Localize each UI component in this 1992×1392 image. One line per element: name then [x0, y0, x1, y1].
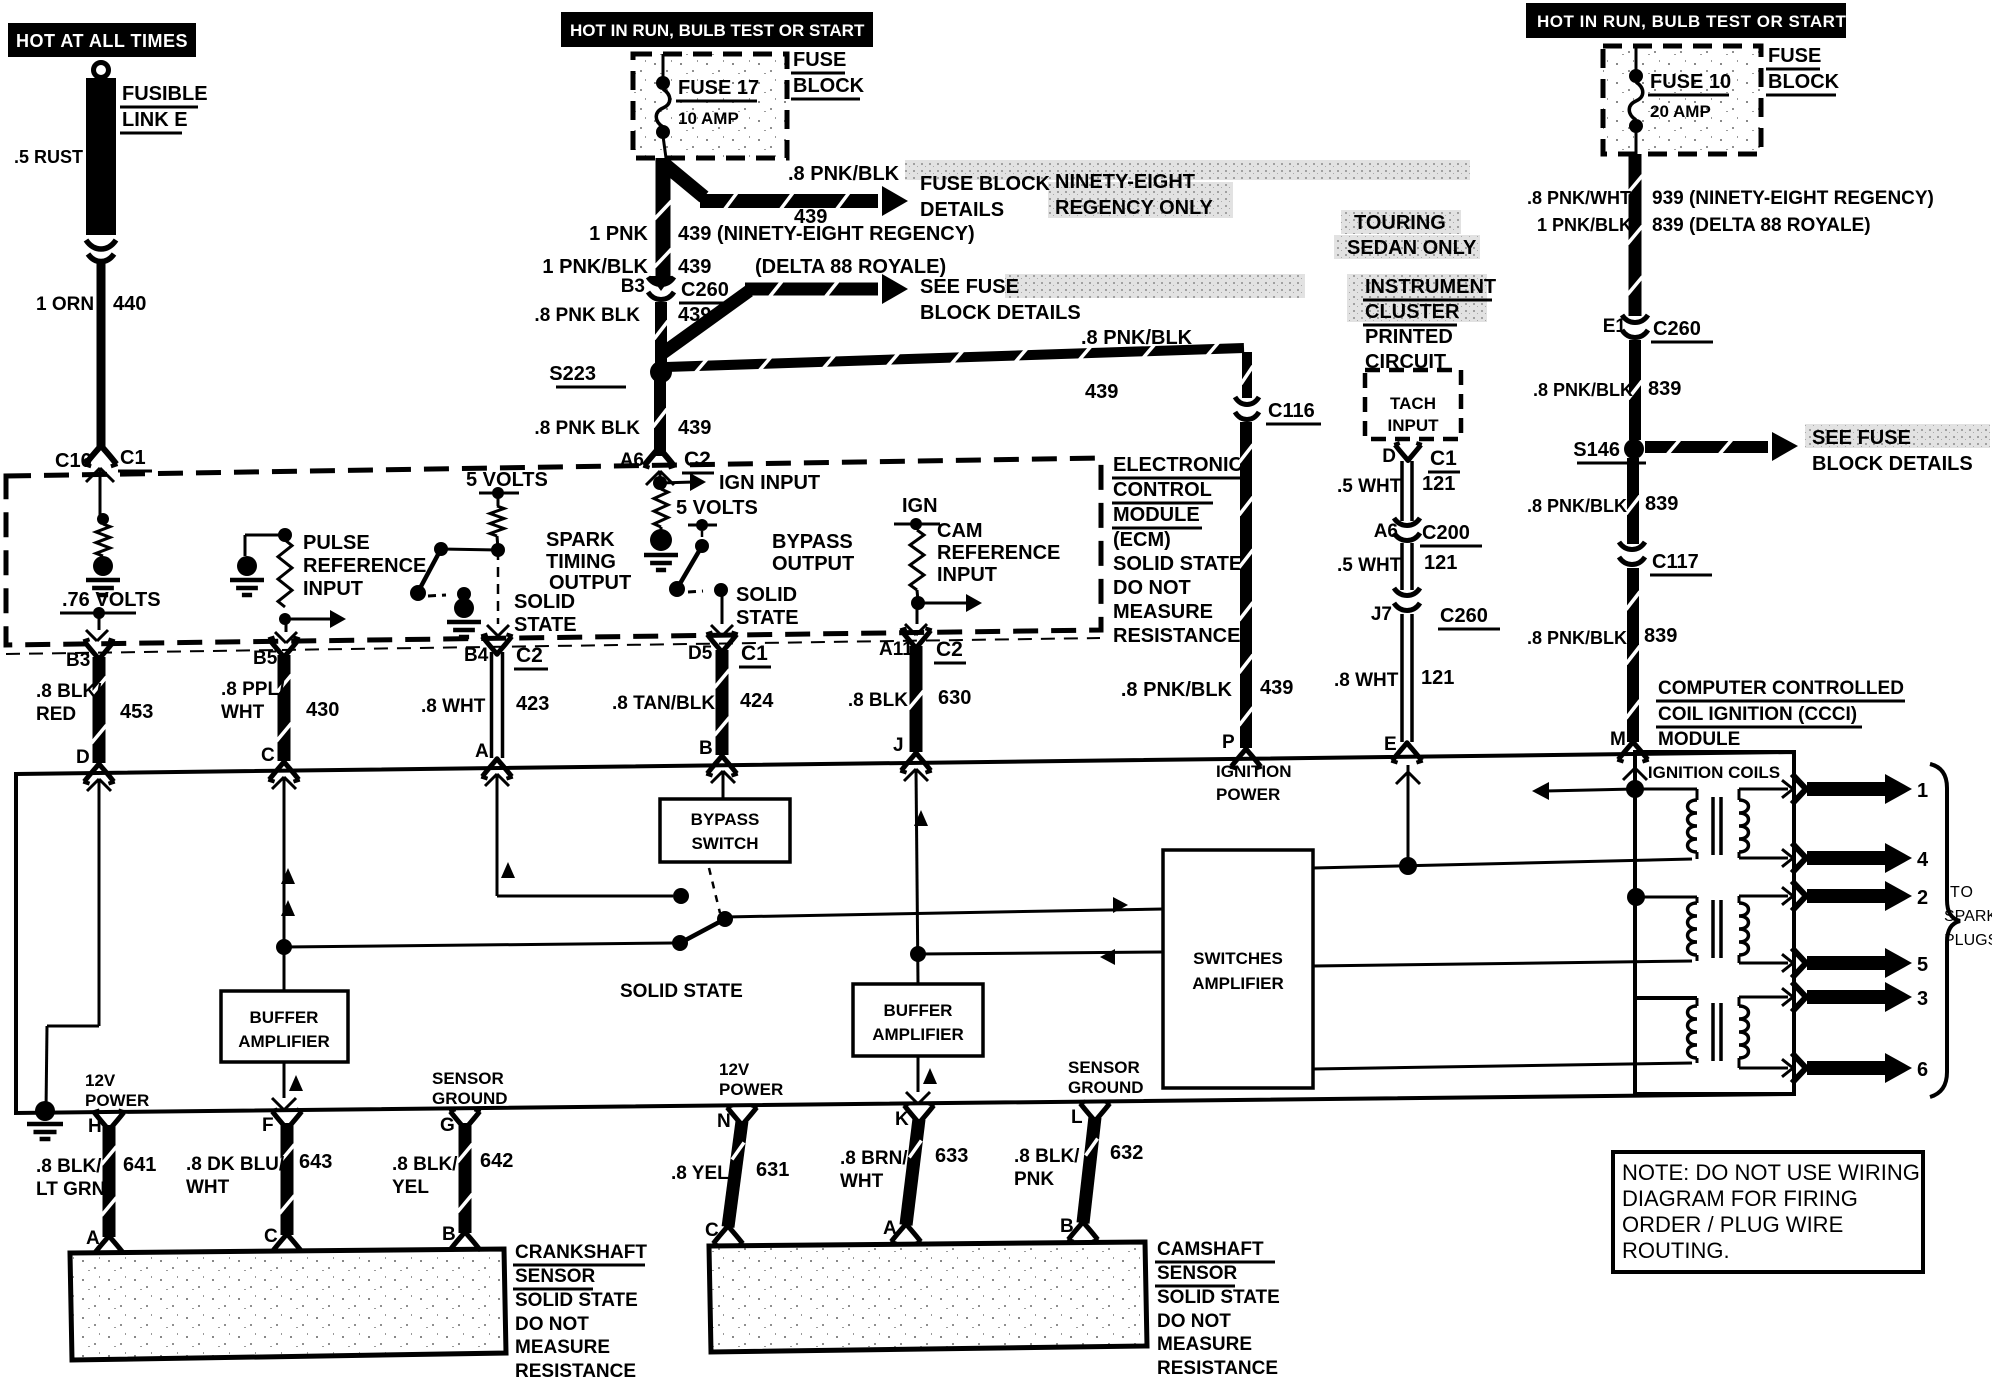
module pin A	[475, 741, 513, 779]
branch arrow to fuse block details (98 regency)	[663, 163, 908, 216]
svg-text:YEL: YEL	[392, 1177, 429, 1198]
svg-text:SENSOR: SENSOR	[1068, 1058, 1140, 1077]
svg-text:TACH: TACH	[1390, 394, 1436, 413]
svg-text:439: 439	[678, 256, 711, 278]
label FUSE 10 20 AMP	[1648, 71, 1731, 121]
switches amp output 3	[1313, 1063, 1692, 1069]
ECM pin A11 / C2	[879, 628, 966, 663]
svg-text:DO NOT: DO NOT	[1157, 1311, 1231, 1332]
svg-text:REGENCY ONLY: REGENCY ONLY	[1055, 197, 1213, 219]
wire C junction to bypass contact	[284, 943, 673, 947]
svg-text:.5 WHT: .5 WHT	[1337, 476, 1402, 497]
svg-text:.8 DK BLU/: .8 DK BLU/	[186, 1154, 285, 1175]
svg-text:.8 PNK/BLK: .8 PNK/BLK	[1121, 679, 1233, 701]
label SEE FUSE BLOCK DETAILS (middle)	[920, 276, 1081, 324]
svg-text:RED: RED	[36, 704, 76, 725]
svg-text:.8 TAN/BLK: .8 TAN/BLK	[612, 693, 715, 714]
svg-text:839: 839	[1645, 493, 1678, 515]
svg-text:423: 423	[516, 693, 549, 715]
svg-text:C: C	[261, 745, 275, 766]
svg-text:C1: C1	[1430, 447, 1457, 470]
arrow to ignition power	[1532, 782, 1635, 800]
svg-text:SOLID: SOLID	[736, 584, 797, 606]
ECM pin D5 / C1	[688, 632, 771, 667]
svg-text:.8 PNK/BLK: .8 PNK/BLK	[1527, 496, 1627, 516]
svg-text:631: 631	[756, 1159, 789, 1181]
gray halo touring	[1334, 210, 1480, 259]
wire 439 below fuse 17	[650, 158, 672, 291]
svg-text:.8 PNK/BLK: .8 PNK/BLK	[1081, 327, 1193, 349]
wire 121 (C200 to C260)	[1400, 543, 1404, 590]
label 1 PNK/BLK 439 (DELTA 88 ROYALE)	[542, 256, 946, 278]
svg-text:121: 121	[1421, 667, 1454, 689]
svg-text:BYPASS: BYPASS	[691, 810, 760, 829]
svg-text:SPARK: SPARK	[546, 529, 615, 551]
svg-text:.8 BLK/: .8 BLK/	[1014, 1146, 1080, 1167]
svg-text:1 PNK/BLK: 1 PNK/BLK	[542, 256, 648, 278]
svg-text:430: 430	[306, 699, 339, 721]
svg-text:ELECTRONIC: ELECTRONIC	[1113, 454, 1243, 476]
svg-text:630: 630	[938, 687, 971, 709]
connector J7 / C260	[1371, 588, 1500, 629]
label .8 PNK/BLK 839 (mid)	[1527, 493, 1678, 516]
label CRANKSHAFT SENSOR block	[513, 1242, 647, 1382]
label CAM REFERENCE INPUT	[937, 520, 1060, 586]
svg-text:1: 1	[1917, 780, 1928, 802]
gray halo see fuse right	[1805, 424, 1990, 448]
svg-text:COIL IGNITION (CCCI): COIL IGNITION (CCCI)	[1658, 704, 1857, 725]
gray halo instrument cluster	[1347, 274, 1487, 322]
brace TO SPARK PLUGS	[1930, 764, 1960, 1097]
svg-text:C260: C260	[681, 279, 729, 301]
svg-text:.8 BLK/: .8 BLK/	[36, 681, 102, 702]
wire 439 between S223 and A6	[654, 380, 666, 456]
svg-text:CONTROL: CONTROL	[1113, 479, 1212, 501]
label .8 BLK/PNK 632	[1014, 1142, 1143, 1190]
svg-text:FUSE: FUSE	[1768, 45, 1821, 67]
fuse 17 symbol	[656, 54, 670, 158]
svg-text:121: 121	[1422, 473, 1455, 495]
module pin B	[699, 738, 738, 776]
svg-text:SOLID STATE: SOLID STATE	[1157, 1287, 1280, 1308]
label .8 PNK/BLK 439 (top arrow)	[788, 163, 900, 228]
svg-text:.8 WHT: .8 WHT	[1334, 670, 1399, 691]
module pin J	[893, 735, 932, 773]
wire 839 to S146	[1629, 340, 1641, 440]
label 1 PNK/BLK 839	[1537, 215, 1871, 236]
wire 430	[278, 655, 291, 761]
svg-text:1 ORN: 1 ORN	[36, 294, 94, 315]
svg-text:FUSE: FUSE	[793, 49, 846, 71]
svg-text:GROUND: GROUND	[1068, 1078, 1144, 1097]
svg-text:.8 WHT: .8 WHT	[421, 696, 486, 717]
wire 630	[910, 646, 923, 752]
cam sensor pin A	[883, 1218, 922, 1244]
svg-text:HOT AT ALL TIMES: HOT AT ALL TIMES	[16, 31, 188, 51]
svg-text:M: M	[1610, 729, 1626, 750]
label FUSE 17 10 AMP	[676, 77, 759, 128]
svg-text:641: 641	[123, 1154, 156, 1176]
label .8 PNK/BLK 439 (long run)	[1081, 327, 1193, 403]
label FUSE BLOCK DETAILS	[920, 173, 1051, 221]
pulse ref ground	[237, 556, 257, 576]
ECM text block	[1112, 454, 1245, 647]
wire 632	[1077, 1116, 1102, 1223]
svg-text:E: E	[1384, 734, 1397, 755]
svg-text:.8 PNK/BLK: .8 PNK/BLK	[1533, 380, 1633, 400]
crank sensor pin C	[264, 1226, 303, 1254]
svg-text:.5 WHT: .5 WHT	[1337, 555, 1402, 576]
buffer amplifier 2 box	[853, 984, 983, 1056]
fuse 10 symbol	[1629, 46, 1643, 154]
wire J to buffer amplifier 2	[904, 769, 1163, 984]
label COMPUTER CONTROLLED COIL IGNITION (CCCI) MODULE	[1656, 678, 1905, 752]
label TO SPARK PLUGS	[1944, 884, 1992, 949]
svg-text:MODULE: MODULE	[1658, 729, 1740, 750]
svg-text:643: 643	[299, 1151, 332, 1173]
wire A6 into ECM	[646, 471, 674, 485]
svg-text:C16: C16	[55, 450, 92, 472]
svg-text:3: 3	[1917, 988, 1928, 1010]
svg-text:F: F	[262, 1115, 274, 1136]
wire 121 (D to C200)	[1400, 461, 1404, 521]
svg-text:ORDER / PLUG WIRE: ORDER / PLUG WIRE	[1622, 1212, 1843, 1237]
svg-text:B5: B5	[253, 648, 278, 669]
wire A to bypass contact	[485, 774, 689, 904]
module pin F	[262, 1109, 303, 1136]
label TACH INPUT	[1388, 394, 1440, 435]
connector A6 / C2	[620, 448, 714, 473]
spark timing output wire	[487, 550, 509, 636]
svg-text:LT GRN: LT GRN	[36, 1179, 105, 1200]
svg-text:C200: C200	[1422, 522, 1470, 544]
module pin M	[1610, 729, 1649, 762]
svg-text:CRANKSHAFT: CRANKSHAFT	[515, 1242, 647, 1263]
svg-text:WHT: WHT	[840, 1171, 884, 1192]
svg-text:.8 PPL/: .8 PPL/	[221, 679, 285, 700]
5 volts supply (bypass)	[676, 497, 758, 531]
label NINETY-EIGHT REGENCY ONLY	[1055, 171, 1213, 219]
svg-text:SOLID STATE: SOLID STATE	[620, 981, 743, 1002]
svg-text:CLUSTER: CLUSTER	[1365, 301, 1460, 323]
module pin L	[1071, 1101, 1111, 1128]
svg-text:MEASURE: MEASURE	[1113, 601, 1213, 623]
svg-text:B: B	[699, 738, 713, 759]
wire M into coils	[1623, 756, 1647, 998]
svg-text:WHT: WHT	[221, 702, 265, 723]
svg-text:J7: J7	[1371, 604, 1392, 625]
svg-text:PNK: PNK	[1014, 1169, 1054, 1190]
camshaft sensor box	[709, 1242, 1147, 1352]
label .8 WHT 121 (lower)	[1334, 667, 1454, 691]
svg-text:439 (NINETY-EIGHT REGENCY): 439 (NINETY-EIGHT REGENCY)	[678, 223, 975, 245]
svg-text:439: 439	[678, 417, 711, 439]
svg-text:SENSOR: SENSOR	[1157, 1263, 1238, 1284]
label INSTRUMENT CLUSTER PRINTED CIRCUIT	[1363, 276, 1496, 373]
svg-text:B3: B3	[621, 276, 645, 297]
fuse block 17 dashed box	[633, 54, 787, 158]
svg-text:439: 439	[1085, 381, 1118, 403]
power label: HOT IN RUN BULB TEST OR START (middle)	[561, 12, 873, 47]
svg-text:SEE FUSE: SEE FUSE	[1812, 427, 1911, 449]
svg-text:INSTRUMENT: INSTRUMENT	[1365, 276, 1496, 298]
svg-text:10 AMP: 10 AMP	[678, 109, 739, 128]
wire 642	[459, 1123, 472, 1233]
IGN input ground	[644, 527, 678, 570]
spark timing resistor	[490, 493, 504, 549]
wire 939 below fuse 10	[1629, 154, 1642, 316]
svg-text:.8 BLK: .8 BLK	[848, 690, 908, 711]
spark plug arrow 2	[1782, 881, 1928, 911]
switches amplifier box	[1163, 850, 1313, 1088]
svg-text:POWER: POWER	[719, 1080, 783, 1099]
label .8 BLK 630	[848, 687, 972, 711]
spark plug arrow 5	[1782, 948, 1928, 978]
ignition coils box	[1635, 752, 1794, 1094]
branch arrow SEE FUSE BLOCK DETAILS (delta 88)	[663, 274, 908, 353]
svg-text:POWER: POWER	[85, 1091, 149, 1110]
crank sensor pin B	[442, 1224, 481, 1252]
pulse ref resistor	[278, 540, 292, 607]
label 1 PNK 439 (NINETY-EIGHT REGENCY)	[589, 223, 975, 245]
svg-text:ROUTING.: ROUTING.	[1622, 1238, 1730, 1263]
wire 424	[716, 650, 729, 755]
svg-text:P: P	[1222, 732, 1235, 753]
module pin P	[1222, 732, 1262, 769]
svg-text:SEE FUSE: SEE FUSE	[920, 276, 1019, 298]
bypass output wire	[711, 590, 733, 636]
cluster pin D / C1	[1382, 443, 1460, 472]
svg-text:839 (DELTA 88 ROYALE): 839 (DELTA 88 ROYALE)	[1652, 215, 1871, 236]
ECM pin B4 / C2	[464, 634, 548, 669]
svg-text:BLOCK DETAILS: BLOCK DETAILS	[1812, 453, 1973, 475]
power label: HOT IN RUN BULB TEST OR START (right)	[1526, 3, 1846, 38]
svg-text:MEASURE: MEASURE	[1157, 1334, 1252, 1355]
label .8 BLK/YEL 642	[392, 1150, 513, 1198]
svg-text:.8 PNK/BLK: .8 PNK/BLK	[1527, 628, 1627, 648]
label .8 PNK/WHT 939	[1527, 188, 1934, 209]
svg-text:C2: C2	[936, 638, 963, 661]
wire 439 long run to C116	[666, 343, 1244, 372]
spark plug arrow 1	[1782, 774, 1928, 804]
svg-text:D: D	[1382, 446, 1396, 467]
buffer amplifier 1 box	[221, 991, 348, 1062]
svg-text:DETAILS: DETAILS	[920, 199, 1004, 221]
svg-text:HOT IN RUN, BULB TEST OR START: HOT IN RUN, BULB TEST OR START	[1537, 12, 1846, 31]
svg-text:REFERENCE: REFERENCE	[303, 555, 426, 577]
wire 121 (C260 to E)	[1400, 614, 1404, 742]
svg-text:HOT IN RUN, BULB TEST OR START: HOT IN RUN, BULB TEST OR START	[570, 21, 865, 40]
svg-text:POWER: POWER	[1216, 785, 1280, 804]
svg-text:839: 839	[1644, 625, 1677, 647]
svg-text:INPUT: INPUT	[937, 564, 997, 586]
svg-text:5: 5	[1917, 954, 1928, 976]
resistor at C16 input	[96, 513, 110, 556]
svg-text:642: 642	[480, 1150, 513, 1172]
svg-text:SEDAN ONLY: SEDAN ONLY	[1347, 237, 1477, 259]
svg-text:BUFFER: BUFFER	[884, 1001, 953, 1020]
svg-text:IGN: IGN	[902, 495, 938, 517]
IGN input node	[653, 472, 820, 494]
svg-text:B4: B4	[464, 645, 489, 666]
wire 633	[900, 1118, 926, 1226]
label SOLID STATE (spark)	[514, 591, 577, 636]
svg-text:SOLID: SOLID	[514, 591, 575, 613]
svg-text:RESISTANCE: RESISTANCE	[1113, 625, 1240, 647]
svg-text:1 PNK/BLK: 1 PNK/BLK	[1537, 215, 1632, 235]
svg-text:BLOCK: BLOCK	[793, 75, 865, 97]
ECM dashed box	[6, 458, 1101, 654]
wire buffer amplifier 2 to K	[906, 1056, 937, 1104]
svg-text:.8 YEL: .8 YEL	[671, 1163, 729, 1184]
svg-text:.8 PNK BLK: .8 PNK BLK	[534, 305, 640, 326]
svg-text:C1: C1	[120, 447, 146, 469]
svg-text:N: N	[717, 1111, 731, 1132]
module pin K	[895, 1103, 935, 1130]
svg-text:5 VOLTS: 5 VOLTS	[466, 469, 548, 491]
cam sensor pin C	[705, 1220, 744, 1246]
gray halo see fuse	[1005, 274, 1305, 298]
svg-text:AMPLIFIER: AMPLIFIER	[1192, 974, 1284, 993]
wire C1 into ECM	[86, 468, 114, 519]
IGN input resistor	[654, 489, 668, 527]
svg-text:C260: C260	[1440, 605, 1488, 627]
splice S146	[1573, 439, 1646, 463]
bypass relay lever	[672, 868, 1163, 951]
svg-text:MODULE: MODULE	[1113, 504, 1200, 526]
connector A6 / C200	[1374, 518, 1482, 546]
wire 439 down to C116	[1242, 352, 1252, 398]
spark plug arrow 4	[1782, 843, 1929, 873]
wire E to coil line	[1396, 765, 1420, 875]
svg-text:INPUT: INPUT	[1388, 416, 1440, 435]
svg-text:SOLID STATE: SOLID STATE	[515, 1290, 638, 1311]
svg-text:S146: S146	[1573, 439, 1620, 461]
bypass switch lever	[669, 531, 728, 597]
svg-text:424: 424	[740, 690, 774, 712]
label .8 WHT 423	[421, 693, 549, 717]
crankshaft sensor box	[70, 1249, 506, 1360]
svg-text:633: 633	[935, 1145, 968, 1167]
label .8 BLK/LT GRN 641	[36, 1154, 156, 1200]
svg-text:GROUND: GROUND	[432, 1089, 508, 1108]
svg-text:2: 2	[1917, 887, 1928, 909]
label IGNITION POWER	[1216, 762, 1292, 804]
svg-text:SOLID STATE: SOLID STATE	[1113, 553, 1242, 575]
label .5 WHT 121 (upper)	[1337, 473, 1455, 497]
ground at C16 input	[93, 556, 113, 576]
ignition coil 1	[1635, 789, 1788, 859]
wire 439 to pin P	[1240, 422, 1252, 748]
cam sensor pin B	[1060, 1216, 1099, 1242]
svg-text:BLOCK DETAILS: BLOCK DETAILS	[920, 302, 1081, 324]
connector C117	[1619, 542, 1712, 575]
switches amp output 2	[1313, 961, 1692, 966]
svg-text:FUSE BLOCK: FUSE BLOCK	[920, 173, 1051, 195]
label SPARK TIMING OUTPUT	[546, 529, 631, 594]
svg-text:MEASURE: MEASURE	[515, 1337, 610, 1358]
svg-text:OUTPUT: OUTPUT	[772, 553, 854, 575]
branch arrow SEE FUSE BLOCK DETAILS (right)	[1645, 432, 1798, 461]
pulse ref junction	[245, 528, 292, 556]
svg-text:SENSOR: SENSOR	[515, 1266, 596, 1287]
wire 423 (white)	[490, 652, 494, 758]
svg-text:.8 BLK/: .8 BLK/	[36, 1156, 102, 1177]
svg-text:NOTE: DO NOT USE WIRING: NOTE: DO NOT USE WIRING	[1622, 1160, 1920, 1185]
label SENSOR GROUND (right)	[1068, 1058, 1144, 1097]
svg-text:COMPUTER CONTROLLED: COMPUTER CONTROLLED	[1658, 678, 1904, 699]
svg-text:SPARK: SPARK	[1944, 908, 1992, 925]
svg-text:RESISTANCE: RESISTANCE	[1157, 1358, 1278, 1379]
svg-text:.8 BLK/: .8 BLK/	[392, 1154, 458, 1175]
svg-text:PULSE: PULSE	[303, 532, 370, 554]
wire 643	[281, 1123, 294, 1235]
label .8 YEL 631	[671, 1159, 789, 1184]
svg-text:CAMSHAFT: CAMSHAFT	[1157, 1239, 1264, 1260]
svg-text:(DELTA 88 ROYALE): (DELTA 88 ROYALE)	[755, 256, 946, 278]
label .8 TAN/BLK 424	[612, 690, 774, 714]
ECM pin B3	[66, 639, 115, 671]
wire bypass switch to B	[711, 771, 735, 799]
svg-text:FUSE 10: FUSE 10	[1650, 71, 1731, 93]
svg-text:1 PNK: 1 PNK	[589, 223, 648, 245]
svg-text:20 AMP: 20 AMP	[1650, 102, 1711, 121]
svg-text:NINETY-EIGHT: NINETY-EIGHT	[1055, 171, 1195, 193]
label .8 PNK/BLK 839 (lower)	[1527, 625, 1677, 648]
connector C16 / C1	[55, 445, 152, 472]
svg-text:IGNITION: IGNITION	[1216, 762, 1292, 781]
svg-text:.8 PNK/BLK: .8 PNK/BLK	[788, 163, 900, 185]
svg-text:453: 453	[120, 701, 153, 723]
svg-text:J: J	[893, 735, 904, 756]
svg-text:.8 PNK BLK: .8 PNK BLK	[534, 418, 640, 439]
svg-text:AMPLIFIER: AMPLIFIER	[872, 1025, 964, 1044]
svg-text:.5 RUST: .5 RUST	[14, 147, 83, 167]
svg-text:A6: A6	[620, 450, 644, 471]
connector C116	[1235, 397, 1321, 424]
svg-text:INPUT: INPUT	[303, 578, 363, 600]
splice below fusible link	[86, 240, 116, 262]
svg-text:.8 BRN/: .8 BRN/	[840, 1148, 908, 1169]
svg-text:SENSOR: SENSOR	[432, 1069, 504, 1088]
wire 839 to C117	[1627, 458, 1639, 544]
module pin N	[717, 1105, 758, 1132]
module pin G	[440, 1109, 481, 1136]
svg-text:IGN INPUT: IGN INPUT	[719, 472, 820, 494]
label TOURING SEDAN ONLY	[1347, 212, 1477, 259]
svg-text:632: 632	[1110, 1142, 1143, 1164]
wire D to ground	[46, 779, 111, 1111]
switches amp output 1	[1313, 859, 1692, 868]
module pin H	[88, 1110, 125, 1137]
svg-text:C1: C1	[741, 642, 768, 665]
svg-text:AMPLIFIER: AMPLIFIER	[238, 1032, 330, 1051]
CCCI module box	[16, 752, 1794, 1113]
svg-text:121: 121	[1424, 552, 1457, 574]
ECM pin B5	[253, 637, 300, 669]
svg-text:A: A	[475, 741, 489, 762]
svg-text:12V: 12V	[719, 1060, 750, 1079]
label .8 BLK/RED 453	[36, 681, 153, 725]
svg-text:D: D	[76, 747, 90, 768]
label FUSIBLE LINK E	[120, 83, 208, 133]
connector E1 / C260 (right)	[1603, 315, 1713, 342]
svg-text:A11: A11	[879, 639, 913, 660]
svg-text:6: 6	[1917, 1059, 1928, 1081]
svg-text:L: L	[1071, 1107, 1083, 1128]
svg-text:E1: E1	[1603, 316, 1627, 337]
label .5 WHT 121 (mid)	[1337, 552, 1457, 576]
